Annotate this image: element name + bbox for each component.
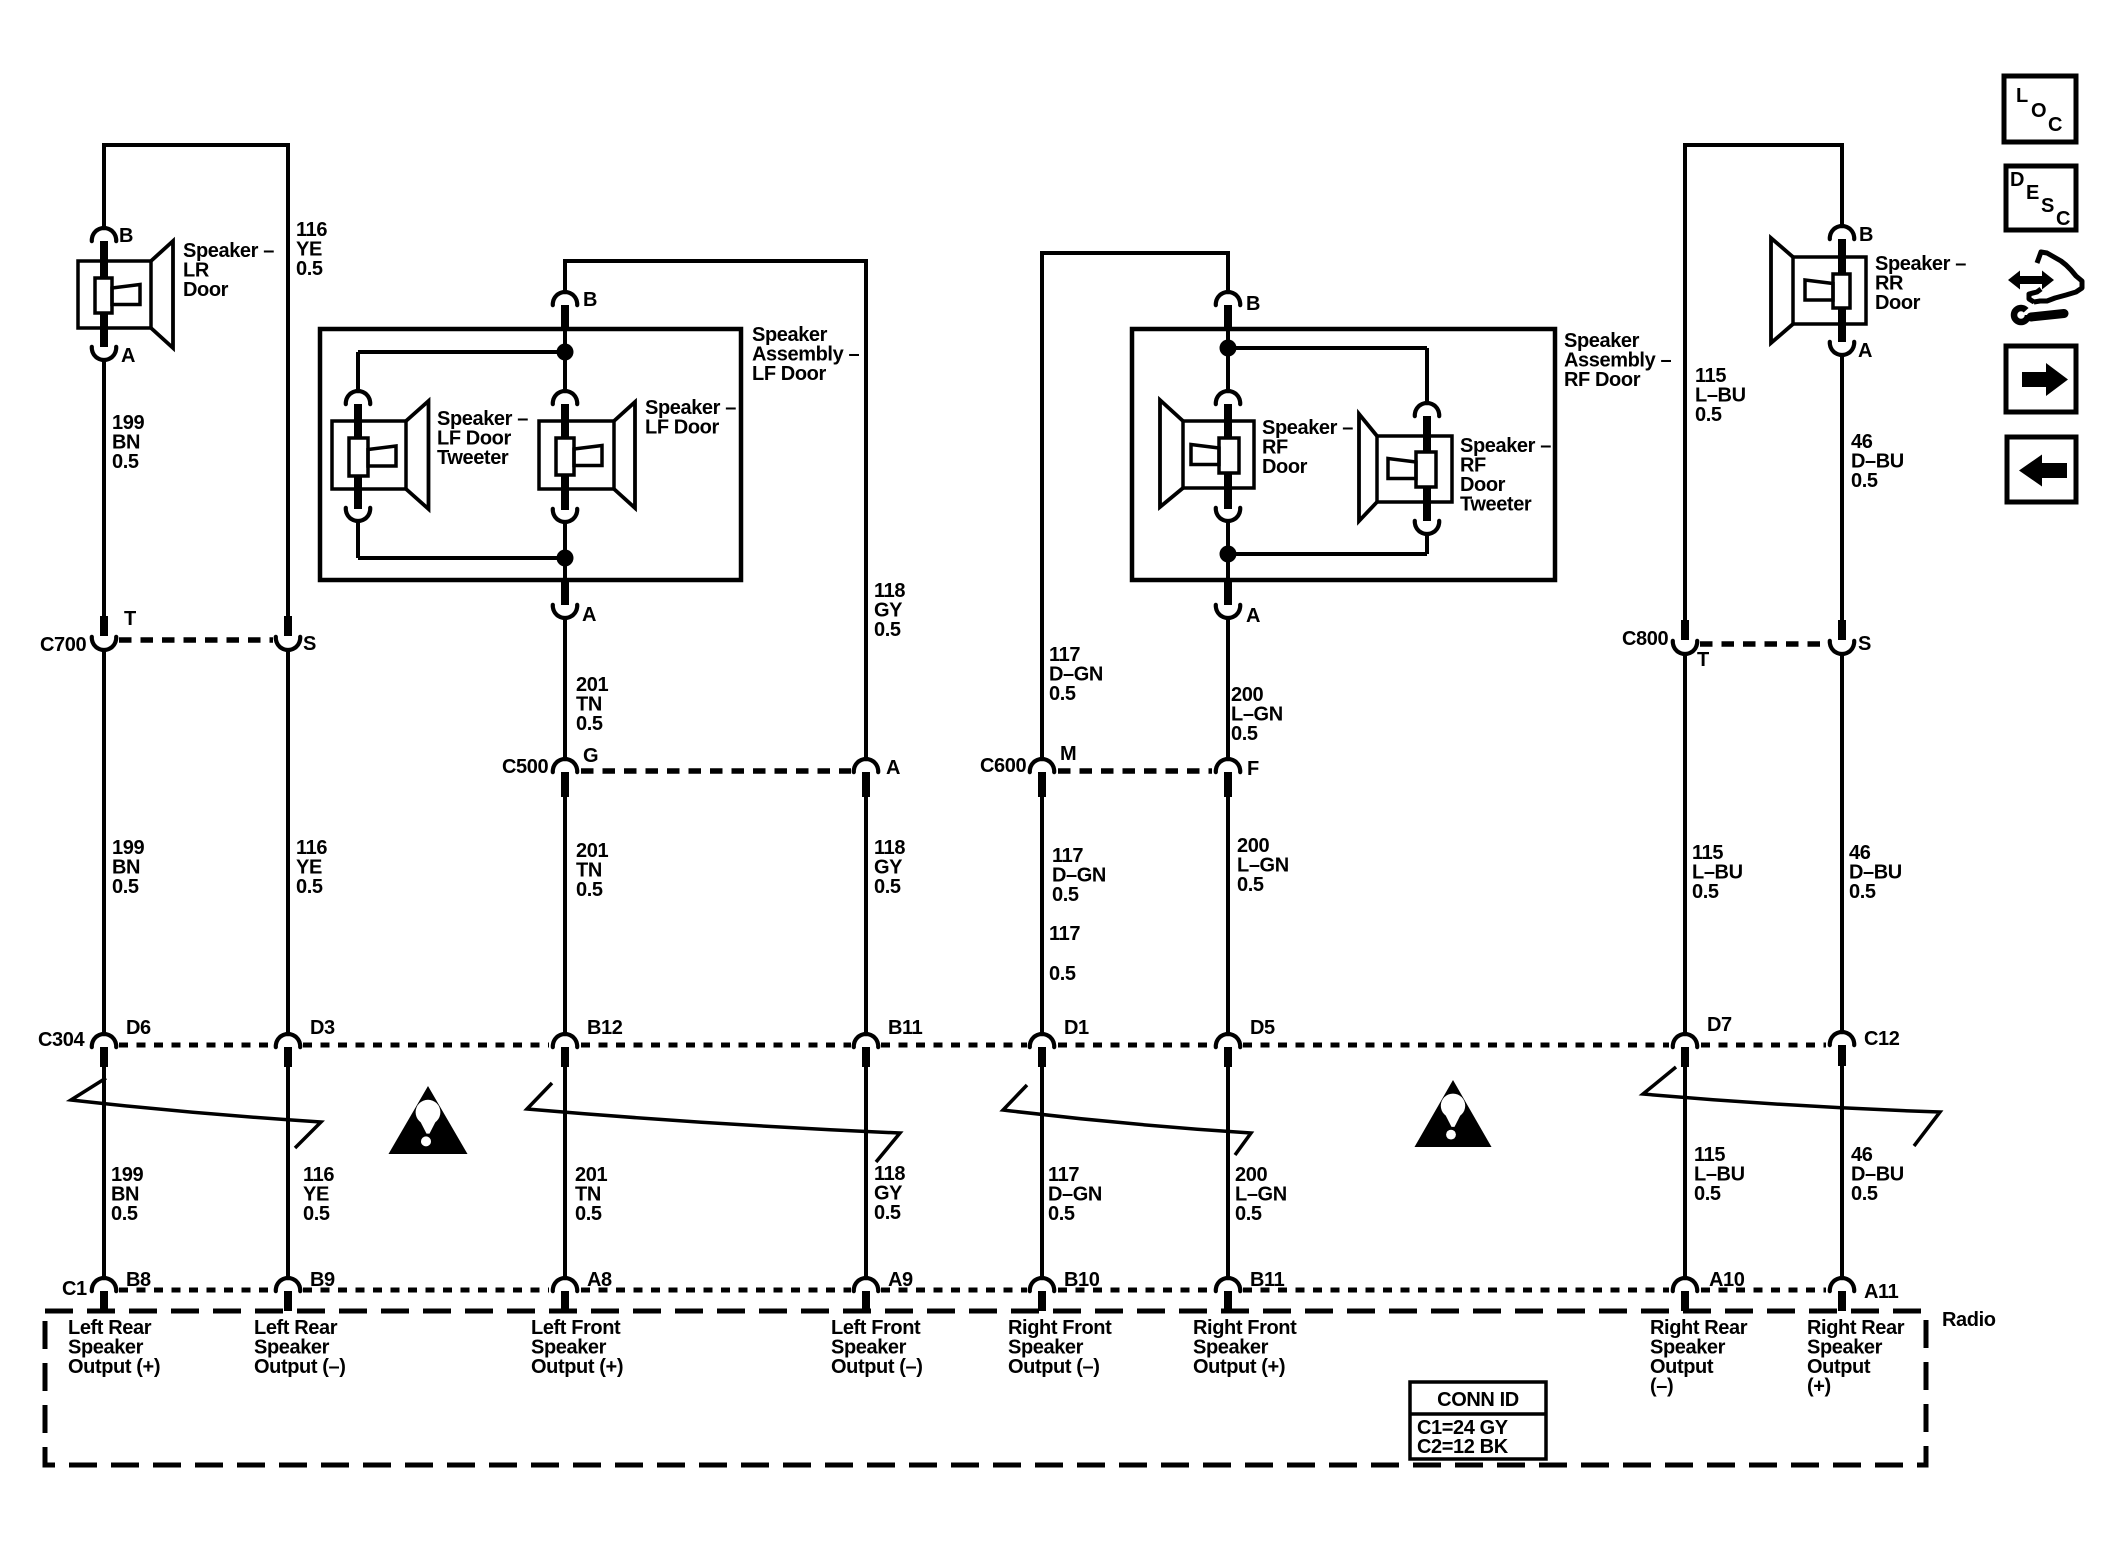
connector C304 pin D1 [1030,1034,1054,1067]
connector C304 pin B11 [854,1034,878,1067]
svg-text:0.5: 0.5 [1692,881,1719,903]
speaker assembly RF Door box [1132,329,1555,580]
label 200 L-GN 0.5 upper [1231,684,1283,745]
svg-text:0.5: 0.5 [296,876,323,898]
label 117 extra [1049,923,1080,945]
wire 46 D-BU mid [1840,654,1844,1031]
svg-text:(–): (–) [1650,1376,1673,1398]
wire 116 YE upper [286,143,290,636]
label C700 [40,634,86,656]
label Radio [1942,1309,1996,1331]
svg-text:C600: C600 [980,755,1026,777]
dashed line C700 [119,637,273,643]
svg-text:Output (+): Output (+) [1193,1356,1285,1378]
svg-text:0.5: 0.5 [1851,1183,1878,1205]
icon LOC box [2004,76,2076,142]
wire 118 GY lower [864,1067,868,1277]
svg-text:0.5: 0.5 [874,619,901,641]
label pin G [583,745,598,767]
speaker RR Door [1771,238,1866,343]
connector C1 pin B11 [1216,1278,1240,1311]
label pin F [1247,758,1259,780]
svg-text:Tweeter: Tweeter [437,447,509,469]
label C304 [38,1029,85,1051]
wire 46 D-BU top stub [1840,143,1844,227]
wire 199 BN lower [102,1067,106,1277]
label pin A9 [888,1269,913,1291]
svg-text:0.5: 0.5 [1052,884,1079,906]
speaker RF Door tweeter [1359,414,1452,521]
conn id table [1410,1382,1546,1459]
wire RF dot to speaker [1226,348,1230,390]
svg-text:Door: Door [1875,292,1921,314]
label Speaker LF Door [645,397,736,439]
label pin B10 [1064,1269,1100,1291]
label radio output B11 [1193,1317,1297,1378]
wire LF inside top [563,329,567,346]
svg-text:0.5: 0.5 [874,1202,901,1224]
dashed line C800 [1700,641,1827,647]
pin top speaker RF [1216,391,1240,421]
wire 116 YE lower [286,1067,290,1277]
label radio output A10 [1650,1317,1748,1398]
pin A speaker RR [1830,324,1854,355]
label 199 BN 0.5 mid [112,837,144,898]
junction dot LF top [557,344,574,361]
wire 201 TN mid [563,797,567,1033]
label radio output B9 [254,1317,346,1378]
svg-text:D5: D5 [1250,1017,1275,1039]
connector C1 pin B10 [1030,1278,1054,1311]
label pin A RR [1858,340,1872,362]
harness crossing left rear wires [71,1078,321,1148]
svg-text:B12: B12 [587,1017,623,1039]
svg-text:T: T [124,608,136,630]
icon cross reference [2008,252,2082,322]
svg-text:Door: Door [1262,456,1308,478]
svg-text:0.5: 0.5 [112,451,139,473]
svg-text:Radio: Radio [1942,1309,1996,1331]
wire loop RF speaker assembly top [1042,251,1228,255]
label Speaker RR Door [1875,253,1966,314]
svg-text:0.5: 0.5 [1237,874,1264,896]
label pin A11 [1864,1281,1899,1303]
connector C304 pin B12 [553,1034,577,1067]
connector C1 pin A9 [854,1278,878,1311]
label 199 BN 0.5 upper [112,412,144,473]
label 116 YE 0.5 upper [296,219,327,280]
radio box dashed outline [45,1311,1926,1465]
label 199 BN 0.5 lower [111,1164,143,1225]
speaker LF Door [539,402,635,508]
svg-text:A: A [582,604,596,626]
wire 117 D-GN lower [1040,1067,1044,1277]
label pin B RF [1246,293,1260,315]
wire LF dot to speaker [563,352,567,390]
connector C1 pin A8 [553,1278,577,1311]
pin top speaker LF [553,391,577,421]
connector C304 pin C12 [1830,1032,1854,1066]
label pin D3 [310,1017,335,1039]
wire tweeter drop [356,352,360,392]
svg-text:Output (+): Output (+) [68,1356,160,1378]
label pin B LR [119,225,133,247]
label 46 D-BU 0.5 lower [1851,1144,1904,1205]
junction dot LF bottom [557,550,574,567]
label pin B9 [310,1269,335,1291]
wire RF tweeter drop [1425,348,1429,404]
label pin T C700 [124,608,136,630]
dashed line C600 [1058,768,1212,774]
svg-text:Output (–): Output (–) [831,1356,923,1378]
svg-text:G: G [583,745,598,767]
svg-text:Output (–): Output (–) [1008,1356,1100,1378]
label pin B11 C1 [1250,1269,1285,1291]
svg-text:0.5: 0.5 [1049,683,1076,705]
svg-text:B: B [1246,293,1260,315]
svg-text:A: A [1246,605,1260,627]
svg-text:A11: A11 [1864,1281,1899,1303]
label Speaker Assembly LF Door [752,324,859,385]
svg-text:0.5: 0.5 [112,876,139,898]
wire LF inside bottom [563,558,567,580]
label pin B11 C304 [888,1017,923,1039]
wire 200 L-GN to C600 [1226,618,1230,760]
svg-text:0.5: 0.5 [1851,470,1878,492]
icon forward arrow box [2006,346,2076,412]
label pin B12 [587,1017,623,1039]
svg-text:B: B [119,225,133,247]
svg-text:A: A [121,345,135,367]
svg-text:Door: Door [183,279,229,301]
svg-text:117: 117 [1049,923,1080,945]
label 117 D-GN 0.5 mid [1052,845,1106,906]
wire 201 TN top stub [563,259,567,293]
wire 117 D-GN mid [1040,797,1044,1033]
warning triangle right [1415,1080,1492,1147]
wire 118 GY upper [864,259,868,760]
wire 201 TN lower [563,1067,567,1277]
svg-text:C12: C12 [1864,1028,1900,1050]
connector C500 pin G [553,759,577,797]
svg-text:S: S [2041,195,2054,217]
wire 117 D-GN upper [1040,251,1044,760]
svg-text:0.5: 0.5 [1694,1183,1721,1205]
svg-text:0.5: 0.5 [1049,963,1076,985]
icon back arrow box [2007,437,2076,502]
speaker LR Door [78,241,173,348]
label pin A C500 [886,757,900,779]
label pin A10 [1709,1269,1745,1291]
label 118 GY 0.5 mid [874,837,905,898]
pin bottom tweeter RF [1415,502,1439,534]
warning triangle left [389,1086,468,1154]
label radio output A8 [531,1317,623,1378]
pin A assembly RF [1216,580,1240,618]
label pin M [1060,743,1076,765]
svg-text:C: C [2056,208,2070,230]
svg-text:D6: D6 [126,1017,151,1039]
svg-text:0.5: 0.5 [1695,404,1722,426]
label 201 TN 0.5 mid [576,840,608,901]
svg-text:D1: D1 [1064,1017,1089,1039]
label 117 D-GN 0.5 lower [1048,1164,1102,1225]
svg-text:D: D [2010,169,2024,191]
label pin S C700 [303,633,316,655]
svg-text:F: F [1247,758,1259,780]
wire 46 D-BU to C800 [1840,355,1844,640]
label Speaker LR Door [183,240,274,301]
junction dot RF bottom [1220,546,1237,563]
label radio output A9 [831,1317,923,1378]
label pin S C800 [1858,633,1871,655]
svg-text:L: L [2016,85,2028,107]
svg-text:C1: C1 [62,1278,87,1300]
label Speaker Assembly RF Door [1564,330,1671,391]
svg-text:E: E [2026,182,2039,204]
wire 115 L-BU mid [1683,654,1687,1033]
wire RF tweeter bottom drop [1425,534,1429,554]
label pin B8 [126,1269,151,1291]
icon DESC box [2006,166,2076,230]
junction dot RF top [1220,340,1237,357]
wire 116 YE mid [286,650,290,1033]
svg-text:S: S [303,633,316,655]
label pin D6 [126,1017,151,1039]
svg-text:0.5: 0.5 [576,879,603,901]
label 115 L-BU 0.5 lower [1694,1144,1745,1205]
wire LF to bottom dot [563,522,567,558]
pin top tweeter LF [346,391,370,421]
svg-text:0.5: 0.5 [1235,1203,1262,1225]
svg-text:B: B [583,289,597,311]
label pin D1 [1064,1017,1089,1039]
wire 200 L-GN lower [1226,1067,1230,1277]
svg-text:RF Door: RF Door [1564,369,1641,391]
wire 115 L-BU upper [1683,143,1687,639]
connector C1 pin A11 [1830,1278,1854,1311]
wire 115 L-BU lower [1683,1067,1687,1277]
svg-text:C700: C700 [40,634,86,656]
svg-text:Output (–): Output (–) [254,1356,346,1378]
label pin A LF [582,604,596,626]
pin B speaker RR [1830,226,1854,257]
label 201 TN 0.5 lower [575,1164,607,1225]
connector C600 pin F [1216,759,1240,797]
connector C304 pin D3 [276,1034,300,1067]
connector C500 pin A [854,759,878,797]
svg-text:0.5: 0.5 [1048,1203,1075,1225]
wire 200 L-GN top stub [1226,251,1230,293]
label pin C12 [1864,1028,1900,1050]
speaker assembly LF Door box [320,329,741,580]
svg-text:0.5: 0.5 [296,258,323,280]
svg-text:C500: C500 [502,756,548,778]
svg-text:0.5: 0.5 [576,713,603,735]
connector C800 pin T [1673,620,1697,654]
wire 200 L-GN mid [1226,797,1230,1033]
speaker RF Door [1160,400,1254,507]
label pin A8 [587,1269,612,1291]
pin A speaker LR [92,328,116,360]
connector C700 pin S [276,616,300,650]
label 0.5 extra [1049,963,1076,985]
svg-text:M: M [1060,743,1076,765]
pin bottom tweeter LF [346,489,370,521]
svg-text:0.5: 0.5 [111,1203,138,1225]
label 118 GY 0.5 lower [874,1163,905,1224]
label radio output B10 [1008,1317,1112,1378]
svg-text:B: B [1859,224,1873,246]
svg-text:C: C [2048,114,2062,136]
pin bottom speaker RF [1216,488,1240,521]
wire 46 D-BU lower [1840,1066,1844,1277]
label 116 YE 0.5 lower [303,1164,334,1225]
svg-text:C800: C800 [1622,628,1668,650]
label 201 TN 0.5 upper [576,674,608,735]
connector C700 pin T [92,616,116,650]
label pin A RF [1246,605,1260,627]
pin B speaker LR [92,228,116,261]
svg-text:(+): (+) [1807,1376,1831,1398]
branch wire RF tweeter bottom [1228,552,1427,556]
label pin D7 [1707,1014,1732,1036]
wire 199 BN to C700 [102,360,106,616]
dashed line C1 [119,1288,1826,1293]
wire loop right rear speaker top [1685,143,1842,147]
svg-text:0.5: 0.5 [1231,723,1258,745]
branch wire LF tweeter top [358,350,565,354]
svg-text:C304: C304 [38,1029,85,1051]
wire RF inside bottom [1226,554,1230,580]
wire 118 GY mid [864,797,868,1033]
connector C1 pin B9 [276,1278,300,1311]
branch wire LF tweeter bottom [358,556,565,560]
wire loop left rear speaker top [104,143,288,147]
label pin A LR [121,345,135,367]
svg-text:A: A [886,757,900,779]
connector C1 pin A10 [1673,1278,1697,1311]
label C1 [62,1278,87,1300]
harness crossing RF wires [1003,1085,1251,1155]
connector C800 pin S [1830,620,1854,654]
svg-text:0.5: 0.5 [575,1203,602,1225]
svg-text:LF Door: LF Door [752,363,826,385]
svg-text:S: S [1858,633,1871,655]
label C800 [1622,628,1668,650]
svg-text:CONN ID: CONN ID [1437,1389,1519,1411]
pin B assembly RF [1216,292,1240,329]
pin B assembly LF [553,292,577,329]
label 116 YE 0.5 mid [296,837,327,898]
speaker LF Door tweeter [332,401,429,509]
svg-text:D7: D7 [1707,1014,1732,1036]
label pin B LF [583,289,597,311]
svg-text:C2=12 BK: C2=12 BK [1417,1436,1509,1458]
wire tweeter bottom drop [356,521,360,558]
svg-text:0.5: 0.5 [874,876,901,898]
label 117 D-GN 0.5 upper [1049,644,1103,705]
wire 199 BN mid [102,650,106,1033]
label Speaker RF Door [1262,417,1353,478]
label Speaker RF Door Tweeter [1460,435,1551,516]
wire RF to bottom dot [1226,521,1230,554]
svg-text:D3: D3 [310,1017,335,1039]
svg-text:T: T [1697,649,1709,671]
dashed line C304 [119,1043,1826,1048]
pin top tweeter RF [1415,403,1439,436]
branch wire RF tweeter top [1228,346,1427,350]
dashed line C500 [581,768,851,774]
connector C1 pin B8 [92,1278,116,1311]
label radio output B8 [68,1317,160,1378]
label 46 D-BU 0.5 upper [1851,431,1904,492]
connector C304 pin D6 [92,1034,116,1067]
label 115 L-BU 0.5 mid [1692,842,1743,903]
svg-text:B11: B11 [888,1017,923,1039]
label 115 L-BU 0.5 upper [1695,365,1746,426]
label C500 [502,756,548,778]
wire 199 BN upper [102,143,106,229]
label 118 GY 0.5 upper [874,580,905,641]
wire loop LF speaker assembly top [565,259,866,263]
wire RF inside top [1226,329,1230,342]
pin bottom speaker LF [553,489,577,522]
label pin B RR [1859,224,1873,246]
connector C304 pin D7 [1673,1034,1697,1067]
svg-text:0.5: 0.5 [303,1203,330,1225]
svg-text:O: O [2031,100,2046,122]
wire 201 TN to C500 [563,618,567,760]
label 200 L-GN 0.5 mid [1237,835,1289,896]
label 200 L-GN 0.5 lower [1235,1164,1287,1225]
label 46 D-BU 0.5 mid [1849,842,1902,903]
pin A assembly LF [553,580,577,618]
connector C600 pin M [1030,759,1054,797]
harness crossing right rear wires [1643,1067,1940,1146]
label C600 [980,755,1026,777]
label pin D5 [1250,1017,1275,1039]
connector C304 pin D5 [1216,1034,1240,1067]
svg-text:Output (+): Output (+) [531,1356,623,1378]
label pin T C800 [1697,649,1709,671]
harness crossing LF wires [527,1083,900,1162]
svg-text:Tweeter: Tweeter [1460,494,1532,516]
svg-text:A: A [1858,340,1872,362]
svg-text:LF Door: LF Door [645,417,719,439]
label radio output A11 [1807,1317,1905,1398]
label Speaker LF Door Tweeter [437,408,528,469]
svg-text:0.5: 0.5 [1849,881,1876,903]
